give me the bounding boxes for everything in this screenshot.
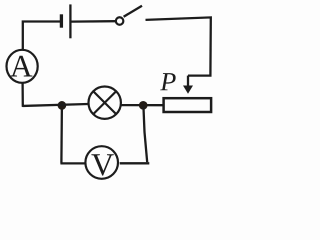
junction node (left)	[58, 101, 67, 110]
switch blade	[124, 6, 142, 17]
wire	[122, 104, 164, 106]
wire	[23, 83, 88, 106]
battery short plate	[60, 14, 63, 27]
wiper arrow	[187, 76, 189, 88]
battery long plate	[69, 4, 71, 38]
junction node (right)	[139, 101, 148, 110]
voltmeter V	[85, 146, 118, 179]
ammeter A	[7, 50, 38, 83]
wire	[146, 17, 211, 75]
wire	[72, 20, 116, 23]
rheostat P body	[164, 98, 212, 112]
wire	[143, 105, 147, 162]
lamp	[89, 87, 121, 119]
switch pivot circle	[116, 17, 124, 25]
wire	[120, 162, 150, 163]
wire	[61, 105, 85, 163]
label P	[160, 73, 175, 90]
wire	[23, 22, 60, 51]
